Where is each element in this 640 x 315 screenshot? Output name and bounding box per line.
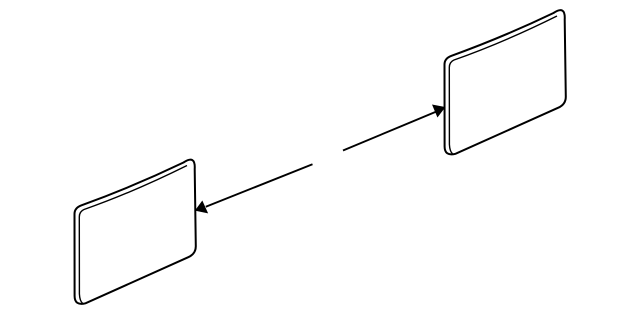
panel lower-left (outer outline) xyxy=(75,160,196,304)
panel lower-left (inner thickness edge) xyxy=(79,166,187,304)
panel upper-right (inner thickness edge) xyxy=(449,16,557,154)
arrow to upper-right panel: head xyxy=(433,105,444,116)
arrow to lower-left panel: shaft xyxy=(206,164,313,207)
panel upper-right (outer outline) xyxy=(445,10,566,154)
arrow to lower-left panel: head xyxy=(196,202,207,213)
arrow to upper-right panel: shaft xyxy=(343,112,437,151)
